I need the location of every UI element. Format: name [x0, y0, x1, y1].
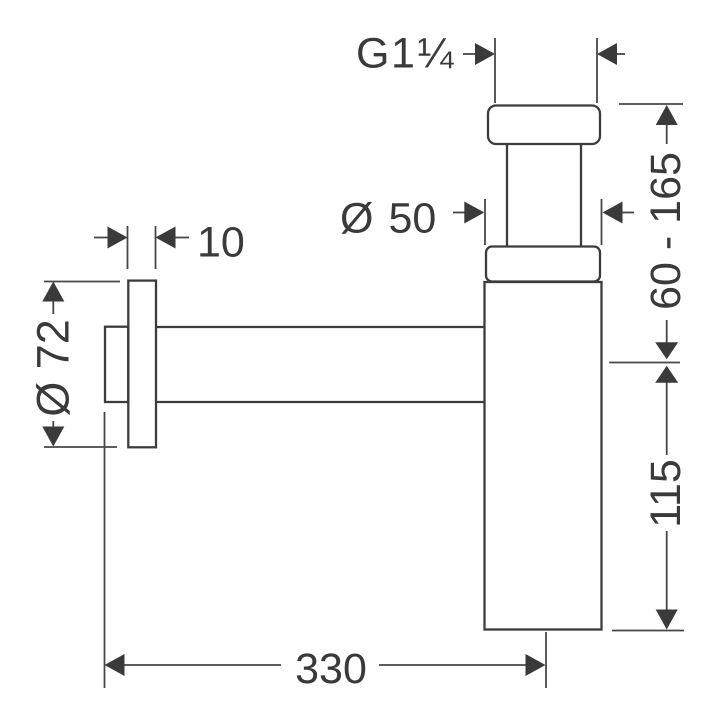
trap body [485, 282, 602, 630]
wall pipe stub [105, 327, 128, 402]
svg-text:330: 330 [295, 645, 367, 693]
body flange collar [486, 247, 600, 282]
extension line 60-165 top [619, 103, 683, 105]
60-165 dim line lower segment [666, 320, 668, 343]
dia72 dim line upper segment [52, 301, 54, 314]
arrowhead dia72 down [42, 427, 64, 447]
arrowhead G1 right [597, 43, 617, 65]
115 dim line upper segment [666, 382, 668, 455]
extension line G1 left [494, 38, 496, 103]
riser tube left wall [506, 145, 508, 247]
svg-text:Ø 72: Ø 72 [28, 319, 79, 417]
extension line 330 right [545, 632, 547, 688]
330 dim line left segment [120, 664, 281, 666]
extension line 10 left [127, 226, 129, 269]
wall flange [128, 281, 156, 448]
siphon top cap (thread nut) [488, 106, 600, 145]
arrowhead 10 right [156, 227, 176, 249]
arrowhead 330 left [105, 654, 125, 676]
G1 dim tail right [616, 53, 625, 55]
10 dim tail right [175, 237, 189, 239]
10 dim tail left [94, 237, 110, 239]
svg-text:60 - 165: 60 - 165 [642, 152, 690, 310]
extension line body bottom right [612, 630, 684, 632]
riser tube right wall [580, 145, 582, 247]
svg-text:10: 10 [197, 219, 245, 267]
extension line dia72 top [44, 281, 120, 283]
outlet pipe top wall [156, 326, 485, 328]
arrowhead dia72 up [42, 282, 64, 302]
115 dim line lower segment [666, 531, 668, 611]
arrowhead 330 right [526, 654, 546, 676]
arrowhead 60-165 up [656, 105, 678, 125]
outlet pipe bottom wall [156, 401, 485, 403]
arrowhead 115 down [656, 610, 678, 630]
330 dim line right segment [379, 664, 530, 666]
svg-text:G1¼: G1¼ [356, 30, 455, 78]
extension line dia72 bottom [44, 446, 117, 448]
G1 dim tail left [463, 53, 477, 55]
svg-text:115: 115 [642, 459, 690, 528]
arrowhead G1 left [475, 43, 495, 65]
extension line dia50 left [484, 199, 486, 245]
arrowhead dia50 left [464, 202, 484, 224]
60-165 dim line upper segment [666, 124, 668, 144]
extension line G1 right [596, 38, 598, 103]
arrowhead dia50 right [603, 202, 623, 224]
arrowhead 60-165 down [655, 342, 678, 359]
extension line 10 right [155, 226, 157, 269]
arrowhead 10 left [108, 227, 128, 249]
arrowhead 115 up [655, 366, 678, 383]
dia72 dim line lower segment [52, 421, 54, 428]
dia50 dim tail right [621, 212, 634, 214]
svg-text:Ø50: Ø50 [340, 195, 436, 243]
dia50 dim tail left [453, 212, 466, 214]
extension line pipe centre right [609, 362, 680, 364]
extension line 330 left [104, 412, 106, 688]
extension line dia50 right [601, 199, 603, 245]
